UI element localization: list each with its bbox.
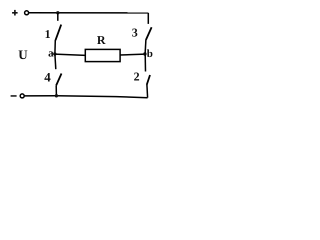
label R [97, 33, 106, 47]
svg-text:U: U [18, 47, 28, 62]
svg-text:1: 1 [45, 27, 51, 41]
wire switch4 top stub from node a [54, 54, 57, 69]
svg-text:2: 2 [134, 70, 140, 84]
terminal circle (+) [25, 11, 29, 15]
label - (negative terminal sign) [11, 95, 17, 97]
svg-text:b: b [147, 48, 153, 60]
node b junction dot [143, 52, 146, 55]
wire switch1 top stub [57, 13, 59, 21]
terminal circle (-) [20, 94, 24, 98]
label a [48, 48, 54, 60]
wire switch3 to node b [144, 40, 147, 54]
node junction dot on bottom wire [55, 94, 58, 97]
wire switch2 top stub from node b [144, 54, 146, 72]
label 2 [134, 70, 140, 84]
wire top-right corner down (switch3 stub) [147, 13, 149, 24]
node junction dot on top wire [56, 11, 59, 14]
wire switch2 hinge to bottom-right corner [146, 84, 149, 97]
label 3 [132, 25, 138, 39]
label + (positive terminal sign) [12, 10, 18, 16]
switch 1 blade (open) [56, 25, 62, 41]
label 4 [44, 70, 51, 85]
switch 2 blade (open) [147, 75, 150, 85]
node a junction dot [53, 52, 56, 55]
label 1 [45, 27, 51, 41]
wire node a to resistor [55, 54, 86, 55]
wire switch4 hinge to bottom wire [55, 85, 57, 96]
label U (source voltage) [18, 47, 28, 62]
svg-text:R: R [97, 33, 106, 47]
wire top horizontal [29, 12, 149, 14]
switch 4 blade (open) [56, 74, 61, 86]
wire resistor to node b [120, 53, 145, 56]
svg-text:3: 3 [132, 25, 138, 39]
svg-text:4: 4 [44, 70, 51, 85]
label b [147, 48, 153, 60]
wire bottom horizontal [24, 96, 147, 98]
wire switch1 to node a [54, 40, 56, 54]
resistor R body [85, 49, 120, 61]
switch 3 blade (open) [146, 27, 152, 40]
background [0, 0, 166, 114]
